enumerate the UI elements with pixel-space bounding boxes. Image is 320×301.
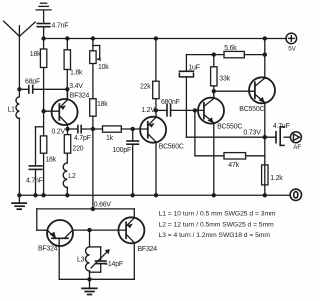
node 100pF tap: [131, 127, 135, 131]
node 5.6k right / rail: [263, 52, 267, 56]
svg-text:33k: 33k: [219, 76, 230, 83]
terminal 0 glyph: [294, 192, 298, 198]
terminal +5V: [286, 33, 297, 44]
svg-text:4.7uF: 4.7uF: [273, 123, 290, 130]
svg-text:18k: 18k: [45, 156, 56, 163]
node 0.73V: [263, 135, 267, 139]
svg-text:1.2V: 1.2V: [141, 107, 155, 114]
transistor BC550C (first, NPN): [198, 91, 224, 195]
wire 0.73V: [186, 136, 276, 138]
transistor BC560C (PNP): [140, 110, 166, 195]
svg-text:3.4V: 3.4V: [69, 83, 83, 90]
svg-text:L3: L3: [77, 257, 85, 264]
ground (oscillator): [82, 279, 97, 294]
svg-text:4.7nF: 4.7nF: [52, 23, 69, 30]
node 0.66V osc: [91, 207, 95, 211]
node tank bottom: [87, 277, 91, 281]
svg-text:47k: 47k: [228, 162, 239, 169]
node 3.4V: [65, 87, 69, 91]
node antenna tap: [17, 87, 21, 91]
resistor 1.8k: [64, 39, 70, 100]
svg-text:L1 = 10 turn / 0.5 mm SWG25 d: L1 = 10 turn / 0.5 mm SWG25 d = 3mm: [159, 211, 277, 218]
capacitor 68pF: [19, 86, 67, 93]
resistor 10k trimmer: [90, 39, 102, 99]
legend L1/L2/L3: [159, 211, 277, 240]
resistor 18k (mid): [90, 99, 96, 129]
node collector/base2: [212, 89, 216, 93]
svg-text:L2 = 12 turn / 0.5mm SWG25 d =: L2 = 12 turn / 0.5mm SWG25 d = 5mm: [159, 221, 275, 228]
svg-text:0.2V: 0.2V: [52, 129, 66, 136]
node gnd 4.7nF: [33, 193, 37, 197]
svg-text:≈14pF: ≈14pF: [104, 261, 123, 268]
svg-text:L3 = 4 turn / 1.2mm SWG18 d =: L3 = 4 turn / 1.2mm SWG18 d = 5mm: [159, 232, 271, 239]
svg-text:BC550C: BC550C: [217, 123, 242, 130]
wire 0.66V rail: [92, 129, 94, 209]
svg-text:1k: 1k: [106, 135, 114, 142]
svg-text:5V: 5V: [288, 46, 296, 53]
svg-text:BF324: BF324: [138, 246, 158, 253]
svg-text:L2: L2: [68, 173, 76, 180]
resistor 18k (top left): [40, 39, 46, 112]
capacitor C 4.7nF (top): [37, 24, 50, 39]
terminal AF out: [290, 132, 301, 143]
capacitor 100pF: [127, 129, 139, 195]
transistor BF324 (osc left, PNP rotated): [47, 220, 126, 279]
inductor L1: [16, 97, 19, 195]
node gnd 1.2k: [263, 193, 267, 197]
svg-text:68pF: 68pF: [25, 79, 40, 86]
node 33k top: [212, 52, 216, 56]
wire osc bottom: [59, 278, 134, 280]
node bus 10k: [91, 36, 95, 40]
svg-text:BF324: BF324: [70, 93, 90, 100]
ground (top, above 4.7nF): [36, 3, 51, 22]
svg-text:0.66V: 0.66V: [94, 202, 112, 209]
svg-text:18k: 18k: [30, 51, 41, 58]
wire 47k drop: [195, 110, 224, 155]
capacitor 4.7pF: [68, 126, 103, 133]
node bus 1.8k: [65, 36, 69, 40]
svg-text:18k: 18k: [97, 101, 108, 108]
svg-text:22k: 22k: [140, 84, 151, 91]
svg-text:10k: 10k: [98, 64, 109, 71]
node osc tank top: [87, 228, 91, 232]
node bus 18k: [41, 36, 45, 40]
transistor BF324 T1 (PNP, RF amp): [44, 89, 78, 134]
svg-text:1uF: 1uF: [188, 64, 199, 71]
svg-text:1.8k: 1.8k: [70, 70, 83, 77]
capacitor 4.7uF (polarized): [276, 127, 290, 145]
node 0.2V: [65, 127, 69, 131]
svg-text:100pF: 100pF: [112, 147, 131, 154]
node gnd 18k: [41, 193, 45, 197]
svg-text:1.2k: 1.2k: [270, 175, 283, 182]
resistor 1k: [103, 126, 149, 132]
node gnd L1: [17, 193, 21, 197]
oscillator: wire top (0.66V): [37, 209, 135, 230]
terminal 0V: [290, 189, 301, 200]
svg-text:0.73V: 0.73V: [244, 129, 262, 136]
node gnd BC550C: [212, 193, 216, 197]
svg-text:BF324: BF324: [38, 246, 58, 253]
node 1.2V: [154, 108, 158, 112]
inductor L3 + tank: [86, 230, 90, 279]
resistor 22k: [153, 39, 159, 111]
resistor 5.6k: [186, 51, 264, 57]
svg-text:680nF: 680nF: [161, 99, 180, 106]
node 18k/1k junction: [91, 127, 95, 131]
node bus/rail: [263, 36, 267, 40]
resistor 220: [64, 135, 70, 163]
ground (left): [12, 195, 26, 209]
antenna: [4, 21, 36, 97]
variable capacitor ~14pF: [90, 247, 110, 272]
transistor BC550C (second, NPN): [214, 39, 275, 196]
resistor 33k: [211, 55, 217, 99]
resistor 18k (lower left): [40, 136, 46, 195]
resistor 1.2k: [262, 165, 268, 185]
svg-text:BC550C: BC550C: [239, 106, 264, 113]
svg-text:4.7pF: 4.7pF: [74, 135, 91, 142]
svg-text:BC560C: BC560C: [159, 144, 184, 151]
wire 0.2V node / jog to 4.7nF: [36, 111, 44, 166]
svg-text:4.7nF: 4.7nF: [26, 178, 43, 185]
wire ground bus: [19, 194, 290, 196]
node bus 22k: [154, 36, 158, 40]
node gnd BC560C: [154, 193, 158, 197]
inductor L2: [63, 163, 67, 195]
node gnd L2: [65, 193, 69, 197]
node base tap (47k): [193, 108, 197, 112]
svg-text:220: 220: [73, 145, 84, 152]
svg-text:L1: L1: [8, 107, 16, 114]
resistor 47k: [224, 153, 265, 159]
wire: +5V top bus: [44, 38, 286, 40]
svg-text:5.6k: 5.6k: [224, 45, 237, 52]
node gnd 100pF: [131, 193, 135, 197]
capacitor 680nF: [156, 105, 204, 116]
capacitor 4.7nF (lower left): [29, 166, 42, 195]
transistor BF324 (osc right, PNP): [118, 209, 144, 279]
capacitor 1uF (polarized): [179, 55, 193, 138]
svg-text:AF: AF: [293, 144, 301, 151]
node base T1: [41, 109, 45, 113]
